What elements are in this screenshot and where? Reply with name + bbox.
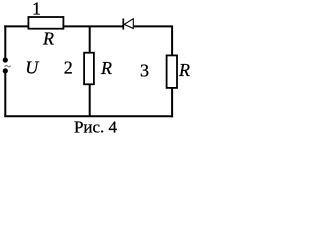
AC tilde [5, 65, 11, 66]
svg-text:1: 1 [32, 0, 41, 19]
wire top-left horizontal [4, 25, 29, 27]
resistor R1 [28, 17, 63, 29]
resistor R3 [167, 55, 177, 88]
resistor R2 [84, 53, 94, 85]
svg-text:R: R [42, 29, 54, 49]
svg-text:3: 3 [140, 61, 149, 81]
wire right upper [171, 26, 173, 56]
wire right lower [171, 88, 173, 117]
svg-text:R: R [100, 58, 112, 78]
diode VD cathode bar [122, 19, 124, 30]
wire middle branch upper [89, 26, 91, 54]
svg-text:R: R [178, 60, 190, 80]
wire top middle [63, 25, 123, 27]
svg-text:2: 2 [64, 58, 73, 78]
wire left upper [4, 25, 6, 58]
terminal dot upper [3, 57, 8, 62]
svg-text:U: U [25, 58, 39, 78]
svg-text:Рис. 4: Рис. 4 [74, 117, 118, 134]
wire top-right horizontal [134, 25, 173, 27]
diode VD triangle [124, 19, 133, 29]
wire left lower [4, 73, 6, 117]
wire bottom horizontal [4, 115, 173, 117]
wire middle branch lower [89, 85, 91, 118]
terminal dot lower [3, 68, 8, 73]
